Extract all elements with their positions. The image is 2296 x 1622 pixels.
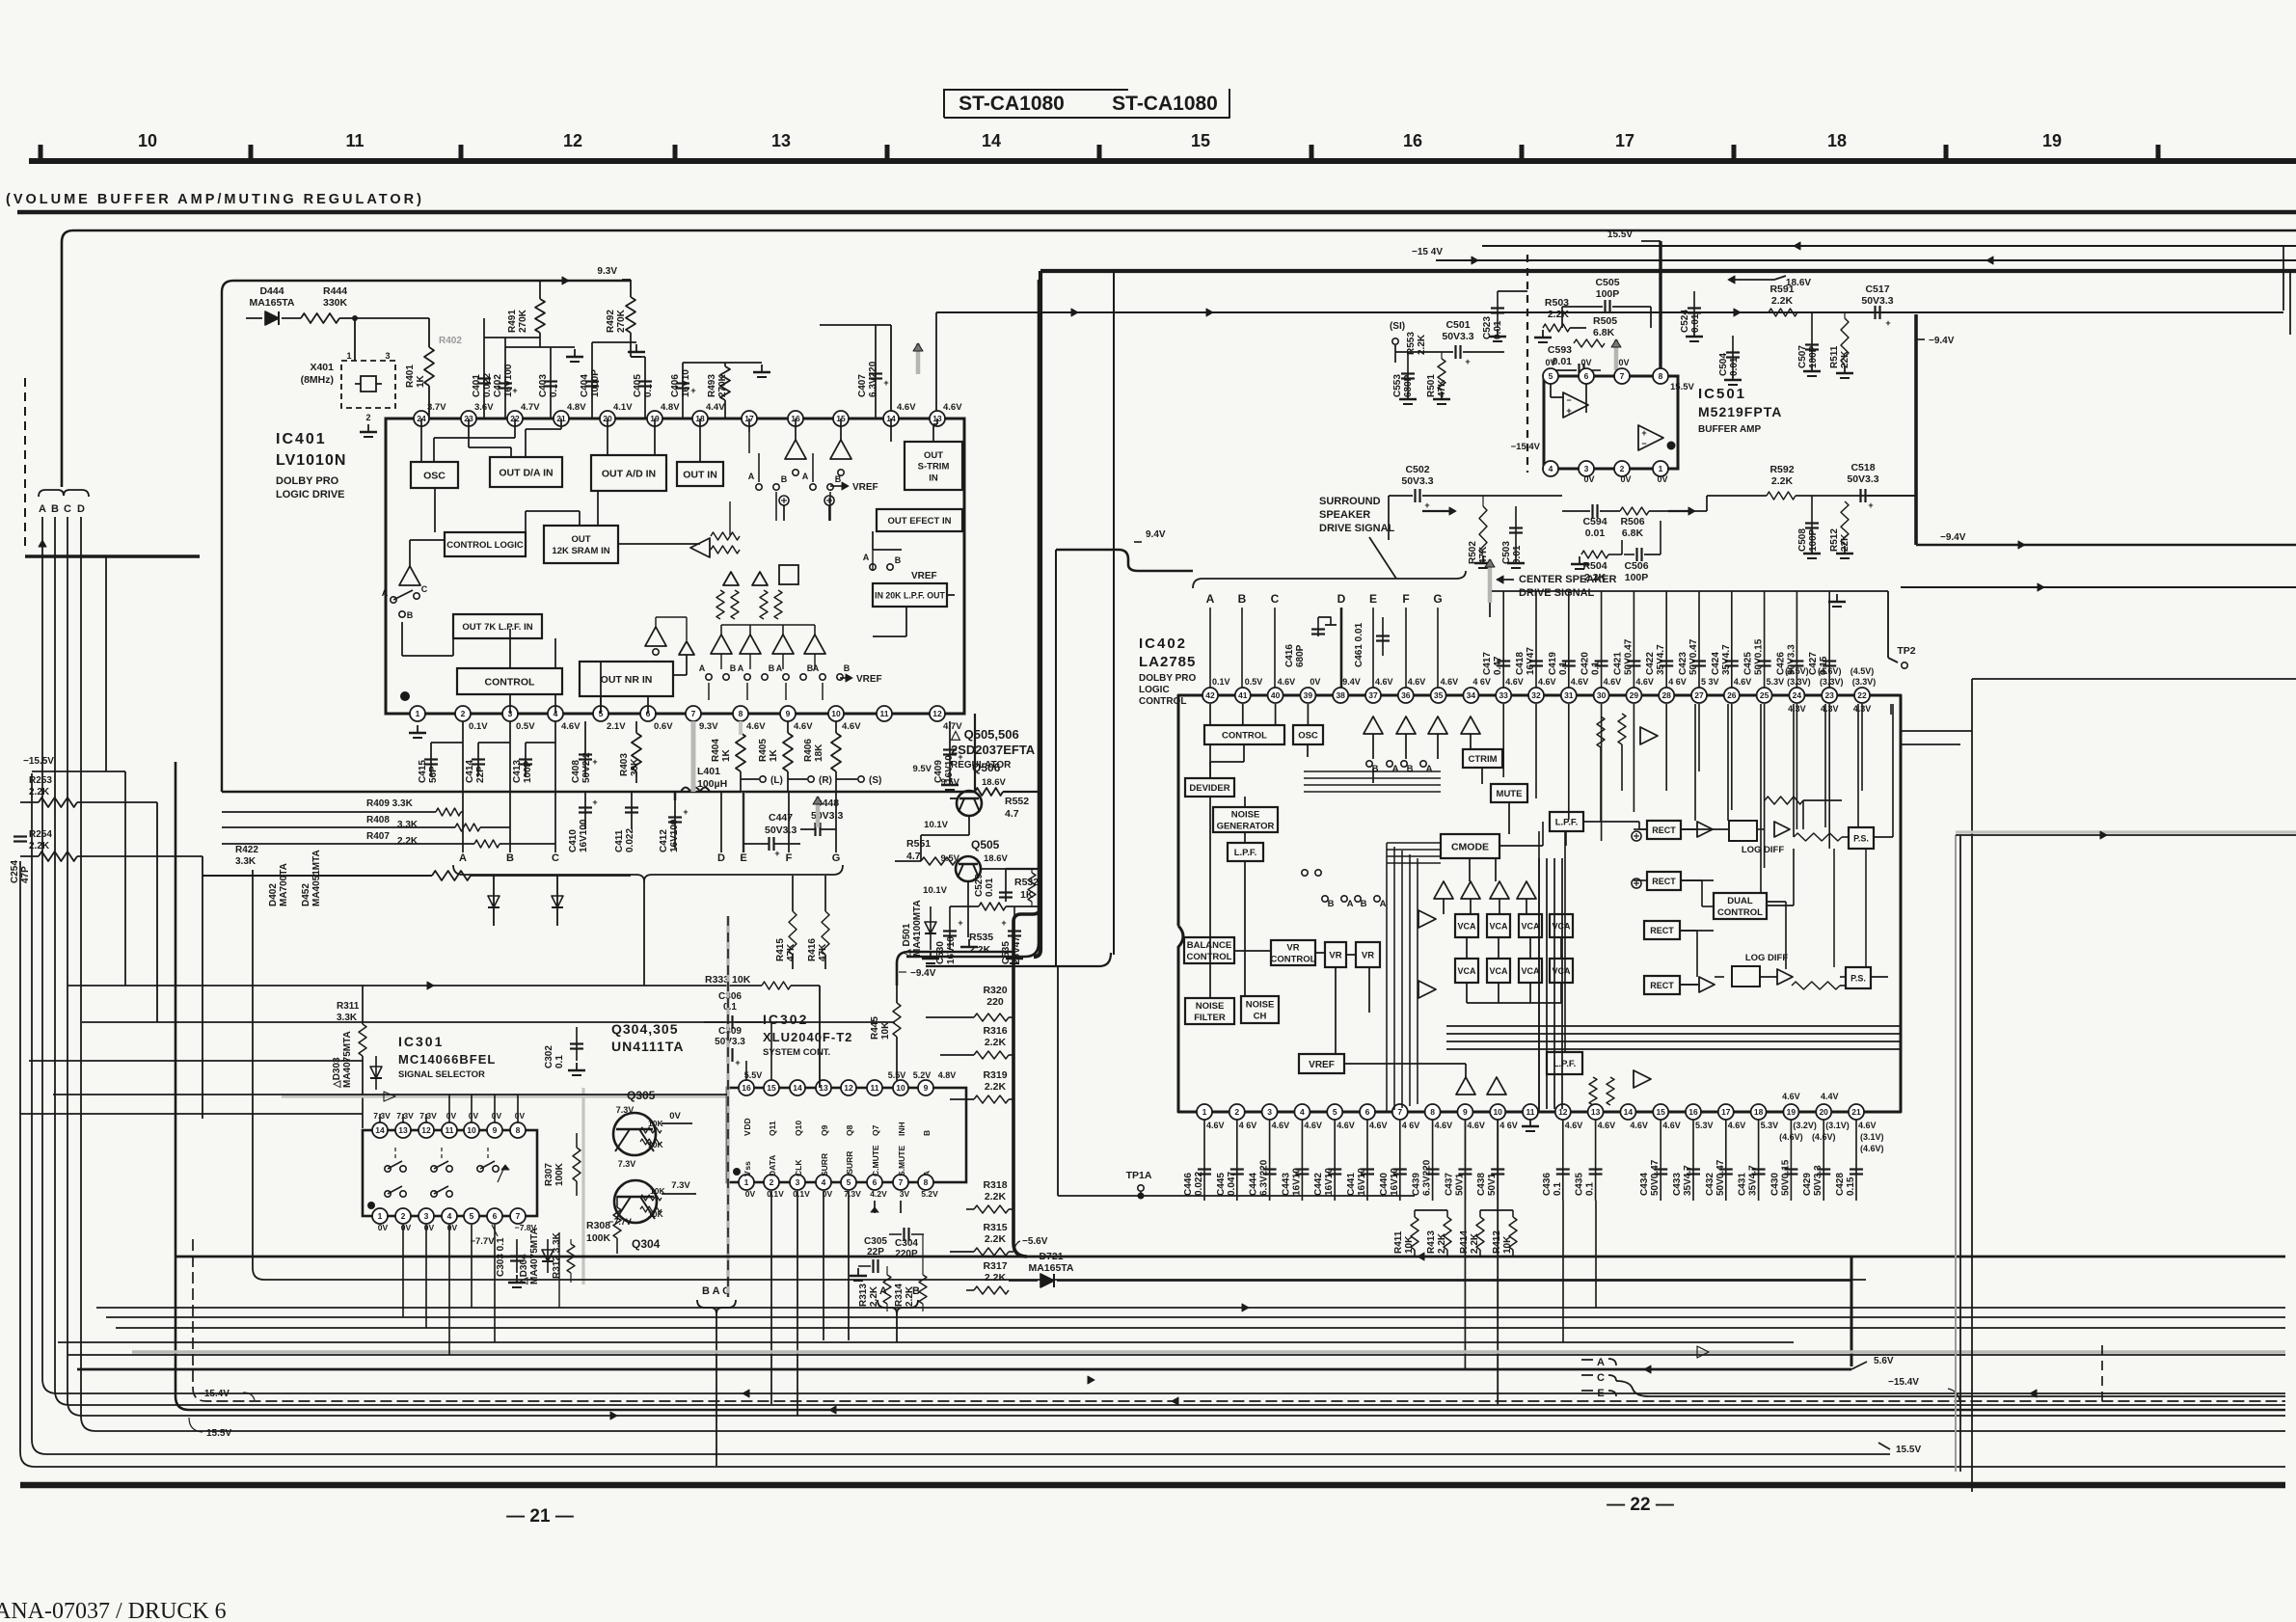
svg-text:S.MUTE: S.MUTE: [897, 1146, 906, 1176]
dashed gray drop: [726, 916, 729, 1297]
svg-text:D452: D452: [301, 883, 311, 906]
svg-text:50V0.47: 50V0.47: [1688, 638, 1699, 675]
block OUT 7K LPF IN: [453, 614, 542, 638]
pin 18 IC402: [1751, 1104, 1767, 1120]
svg-text:8: 8: [1430, 1107, 1435, 1117]
svg-text:5: 5: [1333, 1107, 1337, 1117]
svg-text:10: 10: [138, 131, 157, 150]
bus bottom 1356: [96, 1307, 2285, 1309]
svg-text:R409 3.3K: R409 3.3K: [366, 798, 414, 809]
svg-text:17: 17: [1721, 1107, 1731, 1117]
svg-text:18K: 18K: [814, 743, 824, 762]
pin 24 IC401: [414, 411, 429, 426]
pin 32 IC402: [1528, 688, 1544, 703]
svg-text:4.6V: 4.6V: [1565, 1121, 1583, 1130]
svg-text:Q506: Q506: [972, 761, 1001, 774]
dot marker IC401: [400, 691, 410, 701]
svg-text:R504: R504: [1582, 560, 1607, 572]
svg-text:16: 16: [1403, 131, 1422, 150]
svg-text:3.7V: 3.7V: [427, 402, 446, 413]
amp triangle right bottom: [1634, 1070, 1651, 1088]
block OUT A/D IN: [591, 455, 666, 491]
svg-text:2.2K: 2.2K: [1771, 295, 1794, 307]
wire vertical right bus 2045: [1971, 679, 1973, 1492]
terminal (L): [760, 776, 766, 782]
block CMODE: [1441, 834, 1499, 858]
amp triangle left VCA 2: [1418, 981, 1436, 998]
svg-text:7: 7: [899, 1177, 904, 1187]
svg-text:C447: C447: [769, 812, 793, 824]
svg-text:6: 6: [493, 1211, 498, 1221]
pin 22 IC402: [1854, 688, 1870, 703]
wires IC401 inner right density: [748, 432, 750, 453]
bus bottom 1468 extras: [610, 1412, 617, 1419]
svg-text:21: 21: [1851, 1107, 1861, 1117]
svg-text:7.3V: 7.3V: [671, 1180, 690, 1191]
bus line top 2: [1482, 245, 2296, 247]
svg-text:R502: R502: [1468, 541, 1478, 564]
svg-text:50V0.47: 50V0.47: [1623, 638, 1634, 675]
svg-text:CH: CH: [1254, 1012, 1267, 1022]
svg-text:A: A: [1392, 764, 1399, 774]
wire left margin dashed riser: [24, 378, 26, 546]
block OUT D/A IN: [490, 457, 562, 487]
svg-text:Q7: Q7: [871, 1124, 880, 1136]
svg-text:5: 5: [1549, 371, 1553, 381]
svg-text:MA165TA: MA165TA: [1028, 1262, 1073, 1274]
svg-text:10: 10: [1493, 1107, 1502, 1117]
svg-text:C442: C442: [1313, 1173, 1324, 1196]
right edge verticals: [2282, 246, 2284, 311]
amp triangle right top: [1640, 727, 1658, 744]
node bus A B C D left: [39, 490, 89, 497]
wire 15.5V drop: [1659, 241, 1661, 376]
svg-text:C430: C430: [1769, 1173, 1780, 1196]
svg-text:IC301: IC301: [398, 1034, 444, 1049]
svg-text:2.2K: 2.2K: [985, 1037, 1007, 1048]
svg-text:TP2: TP2: [1897, 645, 1915, 657]
wire 9.4V lower right: [1916, 544, 2296, 546]
block OUT S-TRIM IN: [905, 442, 962, 490]
svg-text:−15.4V: −15.4V: [199, 1389, 230, 1399]
block VREF IC402: [1299, 1054, 1344, 1073]
svg-text:4.7V: 4.7V: [521, 402, 540, 413]
pin 16 IC402: [1686, 1104, 1701, 1120]
svg-text:+: +: [1885, 318, 1890, 328]
pin 3 IC402: [1262, 1104, 1278, 1120]
svg-text:50V0.47: 50V0.47: [1650, 1159, 1661, 1196]
svg-text:4.6V: 4.6V: [1782, 1092, 1800, 1101]
arrow up small on bus A: [39, 540, 46, 547]
block OUT EFECT IN: [877, 509, 962, 531]
wires IC302 pins down: [770, 1191, 772, 1404]
svg-text:15: 15: [1656, 1107, 1665, 1117]
svg-text:4.6V: 4.6V: [1662, 1121, 1681, 1130]
svg-text:0V: 0V: [1657, 474, 1667, 484]
wire left vertical 2: [32, 773, 1890, 1454]
svg-text:B: B: [506, 852, 514, 864]
svg-text:C444: C444: [1249, 1173, 1259, 1196]
pin 42 IC402: [1202, 688, 1218, 703]
ruler scale bar: [29, 158, 2296, 164]
block NOISE GENERATOR: [1213, 807, 1278, 832]
svg-text:15.5V: 15.5V: [206, 1428, 231, 1439]
svg-text:9: 9: [786, 709, 791, 718]
resistor inner h2: [711, 546, 740, 554]
svg-text:0.01: 0.01: [1729, 357, 1740, 376]
svg-text:B: B: [1328, 899, 1335, 909]
svg-text:A: A: [748, 472, 755, 481]
svg-text:C: C: [1271, 592, 1280, 606]
svg-text:5.3V: 5.3V: [1761, 1121, 1779, 1130]
svg-text:INH: INH: [897, 1122, 906, 1136]
op-amp IC402 LA2785 body: [1178, 695, 1901, 1112]
svg-text:+: +: [512, 386, 517, 395]
svg-text:1K: 1K: [1020, 889, 1034, 901]
block RECT 2: [1647, 872, 1681, 890]
svg-text:R506: R506: [1620, 516, 1644, 527]
svg-text:G: G: [832, 852, 841, 864]
svg-text:Q304,305: Q304,305: [611, 1021, 679, 1037]
svg-text:9.3V: 9.3V: [699, 721, 718, 732]
svg-text:5.5V: 5.5V: [888, 1070, 906, 1080]
amp triangle: [1434, 881, 1453, 899]
pin 37 IC402: [1365, 688, 1381, 703]
wire dashed leader right: [2101, 1345, 2103, 1401]
svg-text:B: B: [51, 503, 59, 515]
svg-text:4 6V: 4 6V: [1472, 677, 1491, 687]
summing node 1: [779, 496, 789, 505]
pin 10 IC301: [464, 1122, 479, 1138]
svg-text:0V: 0V: [378, 1223, 389, 1232]
node dots A B row mid: [870, 564, 876, 570]
arrows bottom buses: [743, 1390, 749, 1397]
svg-text:NOISE: NOISE: [1246, 1000, 1275, 1011]
svg-text:12: 12: [844, 1083, 853, 1093]
wire left margin heavy stub: [25, 554, 200, 558]
svg-text:23: 23: [1824, 690, 1834, 700]
svg-text:VR: VR: [1286, 943, 1299, 954]
svg-text:+: +: [1868, 500, 1873, 510]
svg-text:8: 8: [924, 1177, 929, 1187]
svg-text:2: 2: [365, 413, 370, 422]
op-amp IC501 box: [1544, 376, 1678, 469]
svg-text:C305: C305: [864, 1236, 887, 1247]
svg-text:RECT: RECT: [1652, 877, 1676, 886]
svg-text:R414: R414: [1459, 1230, 1470, 1254]
svg-text:L.P.F.: L.P.F.: [1234, 848, 1257, 858]
block IN 20K LPF OUT: [873, 583, 947, 607]
op-amp IC301 body: [363, 1130, 537, 1216]
ground pin11 IC402: [1529, 1119, 1531, 1126]
svg-text:C553: C553: [1392, 374, 1403, 397]
svg-text:R413: R413: [1426, 1230, 1437, 1254]
pin 14 IC302: [790, 1080, 805, 1095]
svg-text:50V0.15: 50V0.15: [1780, 1159, 1791, 1196]
amp triangle rect out 1b: [1774, 822, 1790, 837]
svg-text:C415: C415: [418, 760, 428, 783]
svg-text:E: E: [1369, 592, 1377, 606]
resistor inner v2: [731, 590, 739, 619]
svg-text:11: 11: [871, 1083, 879, 1093]
svg-text:B: B: [407, 610, 414, 620]
pin 35 IC402: [1431, 688, 1446, 703]
svg-text:A: A: [863, 553, 870, 562]
svg-text:11: 11: [880, 709, 889, 718]
block NOISE FILTER: [1185, 998, 1234, 1024]
svg-text:4 6V: 4 6V: [1239, 1121, 1257, 1130]
svg-text:OUT A/D IN: OUT A/D IN: [602, 468, 656, 479]
svg-text:0V: 0V: [669, 1111, 681, 1122]
svg-text:12K SRAM IN: 12K SRAM IN: [552, 546, 609, 556]
resistor zig right mid: [1794, 833, 1842, 841]
pin 41 IC402: [1235, 688, 1251, 703]
hatched arrow center drive: [1488, 559, 1493, 603]
svg-text:C441: C441: [1346, 1173, 1357, 1196]
svg-text:0V: 0V: [745, 1189, 756, 1199]
svg-text:7.3V: 7.3V: [373, 1111, 391, 1121]
svg-text:MA700TA: MA700TA: [279, 863, 289, 906]
amp triangle: [1517, 881, 1536, 899]
svg-text:R415: R415: [775, 938, 786, 961]
svg-text:100K: 100K: [586, 1232, 611, 1244]
svg-text:VREF: VREF: [856, 674, 882, 685]
svg-text:R535: R535: [969, 932, 993, 943]
bus line 5.6V trunk: [1013, 906, 1040, 1257]
svg-text:11: 11: [1526, 1107, 1535, 1117]
svg-text:2.2K: 2.2K: [1470, 1232, 1480, 1254]
svg-text:1K: 1K: [769, 748, 779, 762]
svg-text:R402: R402: [439, 336, 462, 346]
pin 22 IC401: [507, 411, 523, 426]
svg-text:C424: C424: [1711, 652, 1721, 675]
pin 5 IC302: [841, 1175, 856, 1190]
svg-text:F: F: [1402, 592, 1409, 606]
svg-text:VR: VR: [1362, 951, 1374, 961]
svg-text:3.3K: 3.3K: [235, 856, 257, 867]
resistor inner 402 r2: [1618, 714, 1626, 744]
svg-text:VCA: VCA: [1457, 921, 1476, 931]
svg-text:E: E: [1597, 1388, 1604, 1399]
pin 15 IC401: [833, 411, 849, 426]
wire vertical 1097 TP1A feed: [1057, 966, 1059, 1196]
amp triangle row4 3: [772, 635, 794, 654]
svg-text:— 22 —: — 22 —: [1607, 1495, 1674, 1515]
svg-text:TP1A: TP1A: [1126, 1170, 1152, 1181]
svg-text:4: 4: [1549, 464, 1553, 473]
wire bus A vertical: [42, 517, 2285, 1393]
center pointer arrow: [1497, 576, 1503, 583]
pin 33 IC402: [1496, 688, 1511, 703]
svg-text:LA2785: LA2785: [1139, 654, 1196, 670]
svg-text:C436: C436: [1542, 1173, 1553, 1196]
svg-text:4.6V: 4.6V: [746, 721, 766, 732]
thick bus 1155: [1113, 272, 1115, 955]
amp triangle mid small 2: [752, 572, 768, 585]
svg-text:37: 37: [1368, 690, 1378, 700]
svg-text:11: 11: [446, 1125, 454, 1135]
svg-text:BUFFER AMP: BUFFER AMP: [1698, 424, 1762, 435]
svg-text:MA165TA: MA165TA: [249, 297, 294, 309]
svg-text:4.8V: 4.8V: [938, 1070, 957, 1080]
svg-text:LOG DIFF: LOG DIFF: [1742, 845, 1785, 855]
svg-text:B: B: [835, 474, 842, 484]
svg-text:A: A: [738, 663, 744, 673]
svg-text:0V: 0V: [1620, 474, 1631, 484]
svg-text:C503: C503: [1501, 541, 1512, 564]
svg-text:F: F: [786, 852, 793, 864]
svg-text:4.6V: 4.6V: [561, 721, 581, 732]
block VCA: [1487, 959, 1510, 983]
svg-text:VCA: VCA: [1521, 921, 1540, 931]
wire IC402 right edge links: [1901, 730, 1972, 732]
svg-text:22: 22: [1857, 690, 1867, 700]
svg-text:OUT: OUT: [571, 534, 590, 545]
wire mid horizontal 1135: [53, 1094, 727, 1095]
block OUT IN: [677, 462, 723, 486]
svg-text:C445: C445: [1216, 1173, 1227, 1196]
svg-text:C501: C501: [1445, 319, 1470, 331]
svg-text:9: 9: [1463, 1107, 1468, 1117]
svg-text:A: A: [1597, 1357, 1605, 1368]
svg-text:C418: C418: [1515, 652, 1526, 675]
svg-text:CONTROL: CONTROL: [1271, 955, 1316, 965]
svg-text:C425: C425: [1743, 652, 1754, 675]
wire bus C vertical: [68, 517, 2285, 1416]
svg-text:4: 4: [447, 1211, 452, 1221]
svg-text:17: 17: [1615, 131, 1634, 150]
summing node right 1: [1632, 831, 1641, 841]
svg-text:16: 16: [742, 1083, 751, 1093]
svg-text:4.6V: 4.6V: [1598, 1121, 1616, 1130]
svg-text:16V10: 16V10: [1291, 1168, 1302, 1196]
wire thick bus down right of IC401: [1039, 271, 1042, 950]
brace under ABC DEFG: [453, 865, 843, 881]
pin 24 IC402: [1789, 688, 1804, 703]
pin 4 IC401: [548, 706, 563, 721]
wire -15.5V stub: [32, 770, 125, 772]
regulator section bottom border: [906, 280, 1039, 957]
pin 3 IC301: [419, 1208, 434, 1224]
svg-text:A: A: [813, 663, 820, 673]
svg-text:0V: 0V: [1545, 358, 1555, 367]
amp triangle row4 4: [804, 635, 825, 654]
pin 14 IC301: [372, 1122, 388, 1138]
bus line top 3: [1436, 259, 2296, 261]
svg-text:6.3V220: 6.3V220: [1422, 1159, 1433, 1196]
block OSC IC401: [411, 462, 458, 488]
pin 28 IC402: [1659, 688, 1674, 703]
svg-text:VREF: VREF: [852, 482, 878, 493]
svg-text:40: 40: [1271, 690, 1281, 700]
pin 6 IC402: [1360, 1104, 1375, 1120]
svg-text:13: 13: [771, 131, 791, 150]
svg-text:R591: R591: [1769, 284, 1794, 295]
wire R411 link: [1415, 1209, 1447, 1211]
svg-text:Q505: Q505: [971, 838, 1000, 852]
block OSC IC402: [1293, 725, 1323, 744]
svg-text:9.3V: 9.3V: [597, 266, 617, 277]
svg-text:P.S.: P.S.: [1853, 833, 1869, 843]
svg-text:A: A: [1380, 899, 1387, 909]
svg-text:R314: R314: [894, 1284, 905, 1307]
pin 26 IC402: [1724, 688, 1740, 703]
block OUT 12K SRAM IN: [544, 526, 618, 563]
switch A-C IC401: [391, 597, 396, 603]
svg-text:Q305: Q305: [627, 1089, 656, 1102]
svg-text:2.2K: 2.2K: [985, 1272, 1007, 1284]
amp triangle row4 0: [645, 627, 666, 646]
svg-text:R316: R316: [983, 1025, 1007, 1037]
svg-text:18: 18: [1754, 1107, 1764, 1117]
svg-text:−7.7V: −7.7V: [608, 1217, 632, 1227]
svg-text:A: A: [459, 852, 467, 864]
svg-text:9.4V: 9.4V: [1342, 677, 1361, 687]
svg-text:8: 8: [739, 709, 743, 718]
svg-text:10.1V: 10.1V: [924, 820, 948, 830]
svg-text:0.1: 0.1: [554, 1055, 565, 1068]
pin 1 IC401: [410, 706, 425, 721]
svg-text:4.6V: 4.6V: [1467, 1121, 1485, 1130]
svg-text:UN4111TA: UN4111TA: [611, 1039, 684, 1054]
svg-text:IC302: IC302: [763, 1012, 808, 1027]
pin 40 IC402: [1268, 688, 1283, 703]
svg-text:B: B: [769, 663, 775, 673]
bus bottom 1405: [68, 1354, 2285, 1356]
svg-text:OUT IN: OUT IN: [683, 469, 717, 480]
pin 19 IC401: [647, 411, 662, 426]
svg-text:R254: R254: [29, 829, 52, 840]
svg-text:4.6V: 4.6V: [1538, 677, 1556, 687]
svg-text:NOISE: NOISE: [1196, 1001, 1225, 1012]
svg-text:0.1V: 0.1V: [793, 1189, 810, 1199]
svg-text:4.6V: 4.6V: [1571, 677, 1589, 687]
svg-text:OSC: OSC: [423, 470, 446, 481]
svg-text:9.5V: 9.5V: [912, 764, 932, 774]
switches inside IC301: [385, 1166, 391, 1172]
svg-text:1: 1: [1202, 1107, 1207, 1117]
svg-text:100P: 100P: [1596, 288, 1620, 300]
svg-text:6.3V220: 6.3V220: [1259, 1159, 1270, 1196]
svg-text:4.8V: 4.8V: [661, 402, 680, 413]
pin 13 IC402: [1588, 1104, 1604, 1120]
shading gray column 605: [581, 1088, 584, 1284]
svg-text:CONTROL: CONTROL: [1222, 731, 1267, 742]
svg-text:A: A: [39, 503, 46, 515]
svg-text:MC14066BFEL: MC14066BFEL: [398, 1052, 496, 1067]
svg-text:6.8K: 6.8K: [1622, 527, 1644, 539]
svg-text:C: C: [1597, 1372, 1605, 1384]
svg-text:10: 10: [831, 709, 841, 718]
pin 23 IC402: [1822, 688, 1837, 703]
svg-text:(4.5V): (4.5V): [1850, 666, 1875, 676]
svg-text:35: 35: [1434, 690, 1444, 700]
svg-text:19: 19: [1787, 1107, 1796, 1117]
svg-text:E: E: [740, 852, 746, 864]
wire pin13 riser to bus: [935, 312, 937, 419]
svg-text:(R): (R): [819, 775, 832, 786]
hatched arrow IC501: [1614, 339, 1619, 370]
svg-text:C432: C432: [1705, 1173, 1715, 1196]
pin 38 IC402: [1333, 688, 1348, 703]
svg-text:4.6V: 4.6V: [842, 721, 861, 732]
svg-text:−7.7V: −7.7V: [470, 1236, 495, 1247]
svg-text:R315: R315: [983, 1222, 1007, 1233]
pin 11 IC402: [1523, 1104, 1538, 1120]
svg-text:SURROUND: SURROUND: [1319, 496, 1381, 507]
svg-text:8: 8: [516, 1125, 521, 1135]
wire vertical right bus 2028: [1955, 835, 1957, 1472]
